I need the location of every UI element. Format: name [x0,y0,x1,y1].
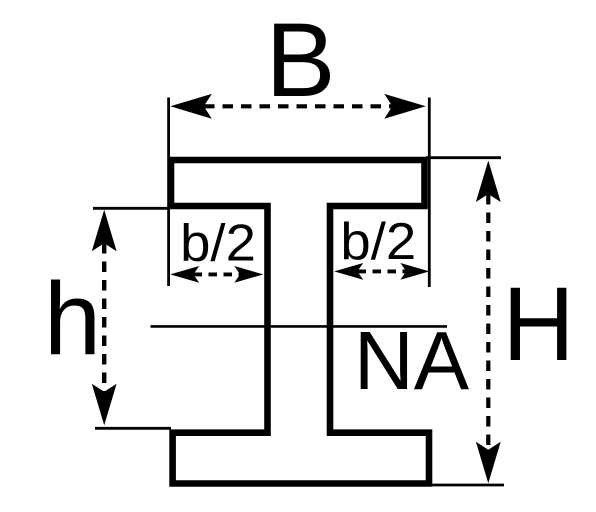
h bottom extension line [95,427,171,430]
dimension B left arrowhead [170,94,212,119]
h top extension line [93,207,170,210]
dimension h top arrowhead [92,210,117,252]
svg-text:b/2: b/2 [180,214,256,272]
svg-text:h: h [44,261,101,376]
H top extension line [426,156,501,159]
dimension b/2 left: right arrowhead [234,266,263,283]
svg-text:NA: NA [354,314,470,407]
dimension B dashed line [204,104,392,108]
dimension H bottom arrowhead [476,442,501,484]
extension line right (for B and right b/2) [428,98,431,288]
dimension b/2 right dashed line [358,269,407,273]
svg-text:B: B [265,2,335,119]
I-beam cross-section outline [171,160,429,484]
svg-text:b/2: b/2 [340,212,416,270]
svg-text:H: H [503,266,575,383]
neutral axis line NA [151,325,448,328]
extension line left (for B and left b/2) [167,98,170,287]
dimension H top arrowhead [476,161,501,203]
dimension h dashed line [102,243,106,392]
dimension b/2 left: left arrowhead [170,266,199,283]
dimension B right arrowhead [384,94,426,119]
dimension b/2 right: right arrowhead [400,263,429,280]
dimension h bottom arrowhead [92,384,117,426]
dimension H dashed line [486,194,490,450]
dimension b/2 left dashed line [194,272,241,276]
dimension b/2 right: left arrowhead [334,263,363,280]
H bottom extension line [432,484,504,487]
